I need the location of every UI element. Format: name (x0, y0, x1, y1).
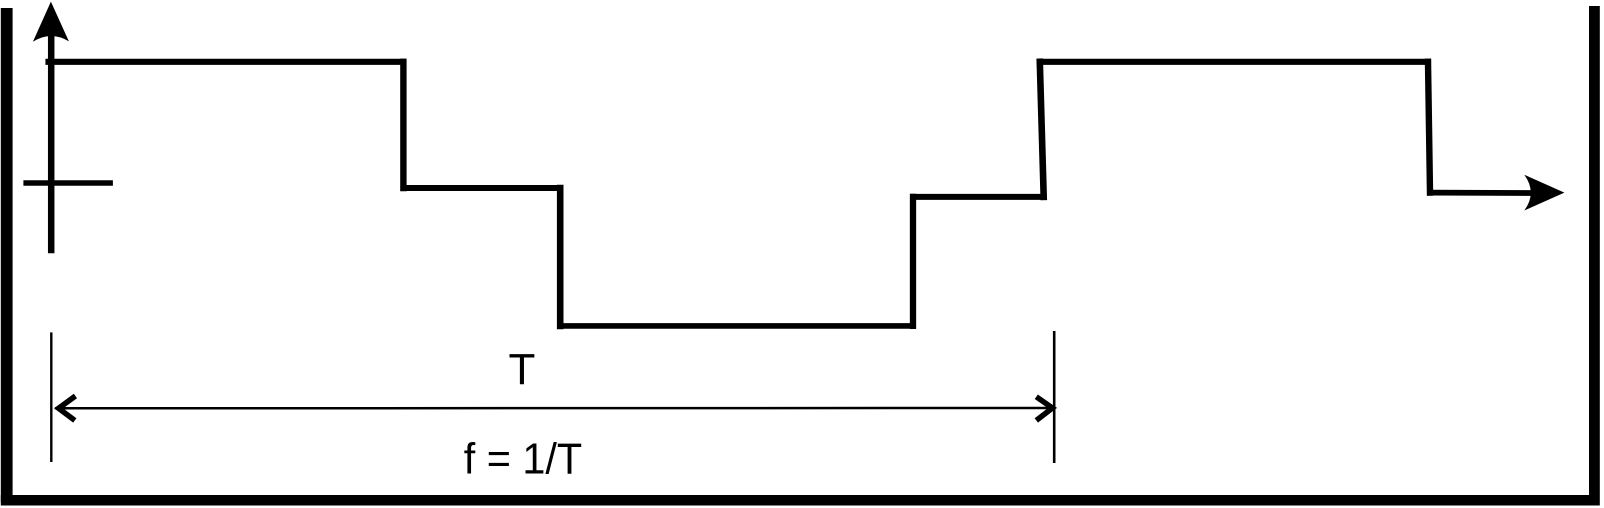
period start tick (50, 332, 52, 462)
waveform: high segment 1 (49, 59, 404, 65)
frame right border (1589, 6, 1600, 506)
waveform: rising edge 1 (910, 197, 916, 326)
waveform: mid segment 2 (913, 194, 1044, 200)
svg-text:f = 1/T: f = 1/T (464, 435, 583, 484)
waveform: falling edge 3 (1428, 62, 1430, 193)
waveform: time-axis return segment (1430, 190, 1552, 196)
waveform: falling edge 1 (400, 62, 406, 188)
y-axis arrowhead (33, 2, 69, 42)
y-axis line (48, 34, 55, 253)
waveform: mid segment 1 (403, 185, 560, 191)
svg-text:T: T (509, 345, 536, 394)
dimension arrow right chevron (1036, 397, 1052, 421)
time-axis arrowhead (1524, 175, 1564, 211)
dimension arrow left chevron (59, 396, 76, 420)
period end tick (1053, 331, 1056, 463)
frame left border (1, 8, 13, 502)
waveform: falling edge 2 (557, 188, 564, 326)
waveform: low segment (560, 323, 913, 329)
waveform: rising edge 2 (slanted) (1040, 62, 1044, 197)
dimension arrow line (55, 407, 1055, 410)
frame bottom border (1, 495, 1600, 506)
waveform: high segment 2 (1040, 59, 1428, 65)
x-axis tick through origin (23, 180, 113, 185)
